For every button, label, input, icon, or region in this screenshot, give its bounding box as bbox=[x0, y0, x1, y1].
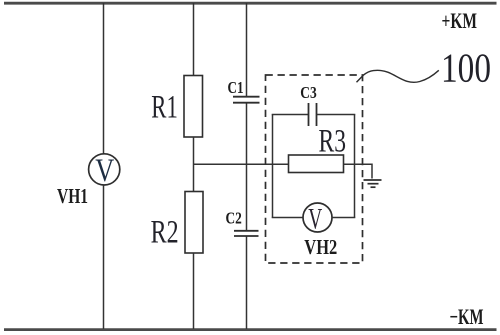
svg-text:VH1: VH1 bbox=[57, 184, 88, 208]
wire bottom rail -KM bbox=[4, 328, 497, 331]
svg-text:V: V bbox=[308, 203, 322, 236]
svg-text:100: 100 bbox=[441, 44, 491, 90]
wire R2 to bottom rail bbox=[193, 253, 195, 329]
svg-text:R1: R1 bbox=[151, 89, 178, 125]
wire inner loop left vertical bbox=[272, 115, 274, 218]
resistor R1 bbox=[184, 76, 203, 138]
svg-text:+KM: +KM bbox=[442, 8, 478, 33]
wire node to R3 bbox=[194, 163, 289, 165]
wire R1 to node bbox=[193, 137, 195, 192]
svg-text:R3: R3 bbox=[319, 123, 347, 159]
svg-text:C1: C1 bbox=[228, 78, 244, 97]
leader squiggle to 100 bbox=[357, 70, 439, 82]
dashed enclosure box 100 bbox=[266, 75, 363, 263]
capacitor C2 bbox=[234, 230, 259, 232]
wire inner loop right vertical bbox=[354, 115, 356, 218]
wire middle branch top bbox=[193, 3, 195, 76]
wire inner loop top left bbox=[272, 114, 309, 116]
wire left branch lower bbox=[103, 185, 105, 329]
svg-text:V: V bbox=[95, 153, 114, 189]
wire C1 to C2 bbox=[246, 104, 248, 231]
wire inner loop bottom right bbox=[332, 217, 356, 219]
ground bbox=[364, 179, 382, 181]
wire capacitor branch upper bbox=[246, 3, 248, 96]
svg-text:−KM: −KM bbox=[450, 304, 484, 329]
resistor R3 bbox=[289, 155, 344, 173]
capacitor C1 bbox=[233, 96, 260, 98]
wire inner loop bottom left bbox=[272, 217, 304, 219]
svg-text:VH2: VH2 bbox=[304, 235, 337, 259]
svg-text:R2: R2 bbox=[151, 214, 179, 250]
wire top rail +KM bbox=[4, 2, 497, 5]
capacitor C3 bbox=[308, 103, 310, 126]
wire R3 to ground corner bbox=[344, 164, 373, 178]
wire left branch upper bbox=[103, 3, 105, 155]
resistor R2 bbox=[185, 192, 203, 254]
voltmeter VH1 bbox=[89, 154, 120, 185]
voltmeter VH2 bbox=[303, 203, 332, 232]
wire inner loop top right bbox=[317, 114, 356, 116]
wire C2 to bottom rail bbox=[246, 237, 248, 330]
svg-text:C2: C2 bbox=[226, 208, 242, 227]
svg-text:C3: C3 bbox=[300, 83, 317, 102]
